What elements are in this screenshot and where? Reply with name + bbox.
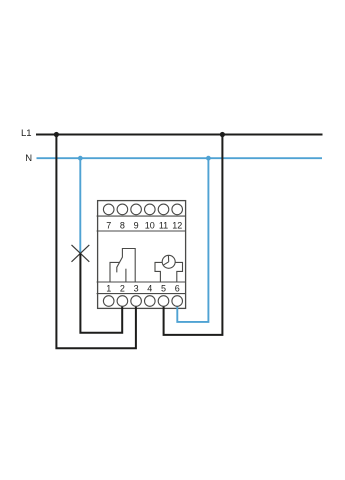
device separator line below top terminals — [97, 215, 186, 217]
lamp X — [72, 245, 90, 262]
junction dot L1 left — [54, 132, 59, 137]
svg-text:5: 5 — [161, 283, 166, 293]
terminal circle 8 — [117, 204, 128, 215]
junction dot N right — [206, 156, 211, 161]
wire lamp X to terminal 2 — [80, 253, 122, 333]
terminal circle 4 — [145, 296, 156, 307]
wire N down-right to terminal 6 — [177, 158, 208, 322]
svg-text:6: 6 — [175, 283, 180, 293]
terminal circle 3 — [131, 296, 142, 307]
terminal circle 2 — [117, 296, 128, 307]
svg-text:L1: L1 — [21, 128, 32, 139]
svg-text:N: N — [25, 153, 32, 164]
wire L1 down-right to terminal 5 — [164, 135, 223, 335]
terminal circle 5 — [158, 296, 169, 307]
svg-text:8: 8 — [120, 221, 125, 231]
svg-text:7: 7 — [106, 221, 111, 231]
junction dot L1 right — [220, 132, 225, 137]
device separator line below top pin numbers — [97, 230, 186, 232]
terminal circle 7 — [103, 204, 114, 215]
timer mechanism pedestal — [155, 262, 183, 282]
svg-text:12: 12 — [172, 221, 182, 231]
terminal circle 10 — [145, 204, 156, 215]
wire L1 bus — [36, 134, 323, 136]
svg-text:1: 1 — [106, 283, 111, 293]
svg-text:9: 9 — [134, 221, 139, 231]
terminal circle 12 — [172, 204, 183, 215]
relay contact K1 blade and right body — [117, 249, 135, 283]
relay contact K1 left body — [110, 262, 120, 282]
timer clock hand hour — [163, 262, 169, 265]
relay contact K1 fixed lead — [125, 269, 127, 282]
terminal circle 9 — [131, 204, 142, 215]
terminal circle 11 — [158, 204, 169, 215]
svg-text:4: 4 — [147, 283, 152, 293]
terminal circle 6 — [172, 296, 183, 307]
timer clock hand minute — [167, 256, 169, 262]
svg-text:3: 3 — [134, 283, 139, 293]
wire N down to lamp X — [79, 158, 81, 253]
junction dot N left — [78, 156, 83, 161]
timer clock face — [162, 255, 175, 268]
wire N bus — [37, 157, 323, 159]
svg-text:11: 11 — [159, 221, 168, 231]
wire L1 down-left to terminal 3 — [56, 135, 135, 349]
terminal circle 1 — [103, 296, 114, 307]
device separator line below bottom pin numbers — [97, 293, 186, 295]
timer relay device U1 outline — [98, 201, 186, 309]
svg-text:10: 10 — [145, 221, 155, 231]
svg-text:2: 2 — [120, 283, 125, 293]
device separator line above bottom pin numbers — [97, 281, 186, 283]
